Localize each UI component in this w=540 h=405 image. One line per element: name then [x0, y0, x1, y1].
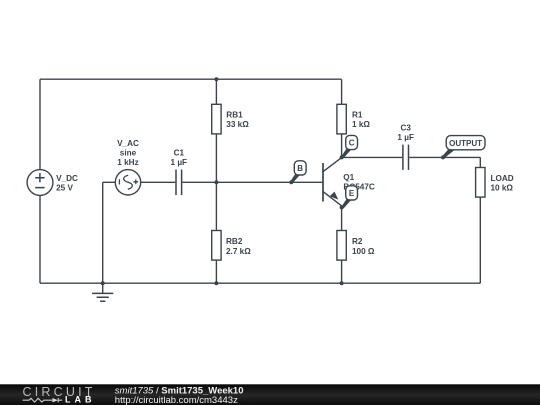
svg-text:E: E [349, 189, 355, 198]
svg-text:RB2: RB2 [226, 237, 243, 246]
svg-text:1 kHz: 1 kHz [117, 158, 138, 167]
svg-text:25 V: 25 V [56, 184, 73, 193]
svg-text:100 Ω: 100 Ω [352, 247, 375, 256]
svg-text:B: B [297, 164, 303, 173]
svg-text:C1: C1 [174, 148, 185, 157]
svg-text:1 µF: 1 µF [397, 133, 414, 142]
svg-text:C3: C3 [400, 124, 411, 133]
svg-text:RB1: RB1 [226, 111, 243, 120]
svg-text:R1: R1 [352, 111, 363, 120]
svg-text:V_DC: V_DC [56, 174, 78, 183]
svg-text:33 kΩ: 33 kΩ [226, 120, 249, 129]
svg-text:LAB: LAB [65, 395, 96, 405]
svg-text:V_AC: V_AC [117, 139, 139, 148]
svg-text:1 µF: 1 µF [171, 158, 188, 167]
svg-text:OUTPUT: OUTPUT [449, 139, 482, 148]
svg-text:2.7 kΩ: 2.7 kΩ [226, 247, 251, 256]
svg-text:10 kΩ: 10 kΩ [491, 184, 514, 193]
svg-text:http://circuitlab.com/cm3443z: http://circuitlab.com/cm3443z [115, 395, 238, 405]
svg-text:LOAD: LOAD [491, 174, 514, 183]
svg-text:sine: sine [120, 148, 137, 157]
svg-text:1 kΩ: 1 kΩ [352, 120, 370, 129]
svg-text:R2: R2 [352, 237, 363, 246]
svg-text:C: C [349, 139, 355, 148]
svg-text:Q1: Q1 [343, 173, 354, 182]
